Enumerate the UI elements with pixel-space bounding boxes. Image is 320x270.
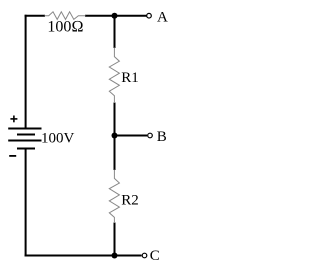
svg-text:100V: 100V [41,131,75,147]
svg-text:B: B [157,129,167,145]
terminal A open circle [147,13,152,18]
wire top-left horizontal (left corner to resistor lead) [25,15,45,17]
resistor 100ohm (horizontal zigzag) [45,12,86,20]
wire right vertical R1 to R2 [114,103,116,171]
wire node B horizontal [115,135,148,137]
junction node dot B branch [112,133,118,139]
wire right vertical stub A to R1 [114,16,116,48]
wire left vertical lower (battery - plate to bottom corner) [25,149,27,257]
battery V1 plate short bottom (-) [17,148,35,150]
resistor R1 (vertical zigzag) [109,48,119,104]
resistor R2 (vertical zigzag) [109,170,119,223]
terminal B open circle [148,133,153,138]
wire right vertical R2 to bottom [114,223,116,256]
battery V1 plate long top (+) [8,128,41,130]
wire left vertical upper (corner to battery + plate) [25,15,27,129]
wire bottom horizontal (bottom-left corner to terminal C) [25,255,142,257]
battery plus sign [10,118,17,120]
battery V1 plate short [17,134,35,136]
svg-text:R1: R1 [121,70,139,86]
junction node dot A branch [112,13,118,19]
wire top-right horizontal (resistor to terminal A) [85,15,148,17]
battery V1 plate long [8,140,41,142]
svg-text:A: A [157,10,168,26]
battery minus sign [9,155,16,157]
terminal C open circle [142,253,147,258]
svg-text:100Ω: 100Ω [47,18,83,35]
svg-text:R2: R2 [121,193,139,209]
junction node dot C branch [112,253,118,259]
svg-text:C: C [150,248,160,264]
